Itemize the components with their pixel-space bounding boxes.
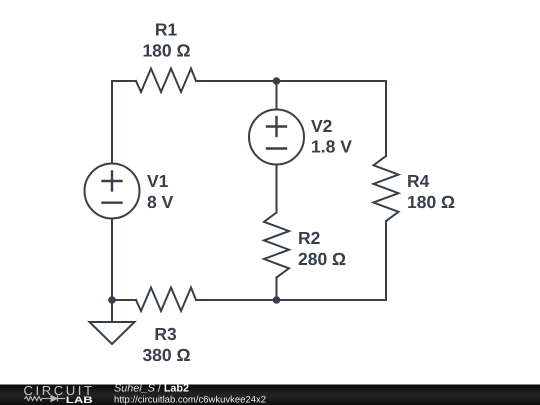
footer bar: [0, 385, 540, 405]
wire ground stem: [111, 300, 113, 322]
wire R1 right to top-right corner down to R4 top: [196, 81, 386, 156]
voltage source V2: [249, 110, 304, 165]
node junction bottom-left (ground net): [108, 296, 116, 304]
wire R4 bottom to bottom-right corner: [196, 221, 386, 300]
svg-text:380 Ω: 380 Ω: [142, 345, 190, 365]
svg-text:280 Ω: 280 Ω: [298, 249, 346, 269]
svg-text:8 V: 8 V: [147, 192, 174, 212]
resistor R1: [136, 69, 196, 93]
node junction top (V2/R1/R4 net): [273, 77, 281, 85]
svg-text:V2: V2: [311, 116, 333, 136]
svg-text:1.8 V: 1.8 V: [311, 137, 352, 157]
resistor R4: [374, 156, 399, 221]
svg-text:180 Ω: 180 Ω: [407, 192, 455, 212]
wire V1 bottom stem: [111, 219, 113, 300]
wire top-left corner: V1 top to R1 left: [112, 81, 136, 163]
resistor R3: [136, 288, 196, 312]
svg-text:Suhel_S / Lab2: Suhel_S / Lab2: [114, 383, 189, 395]
svg-text:LAB: LAB: [66, 395, 93, 405]
svg-text:R4: R4: [407, 171, 430, 191]
resistor R2: [264, 213, 289, 278]
wire R2 bottom to bottom node: [276, 278, 278, 301]
footer logo schematic resistor+diode: [24, 396, 65, 402]
ground: [90, 322, 135, 344]
voltage source V1: [85, 164, 140, 219]
svg-text:R1: R1: [155, 20, 178, 40]
svg-text:V1: V1: [147, 171, 169, 191]
node junction bottom-middle (R2 bottom net): [273, 296, 281, 304]
wire R3 left to bottom-left node: [112, 299, 136, 301]
wire V2 bottom to R2 top: [276, 165, 278, 213]
svg-text:R3: R3: [154, 324, 177, 344]
svg-text:180 Ω: 180 Ω: [142, 41, 190, 61]
wire V2 top stem: [276, 81, 278, 110]
svg-text:R2: R2: [298, 228, 321, 248]
svg-text:http://circuitlab.com/c6wkuvke: http://circuitlab.com/c6wkuvkee24x2: [114, 395, 266, 405]
